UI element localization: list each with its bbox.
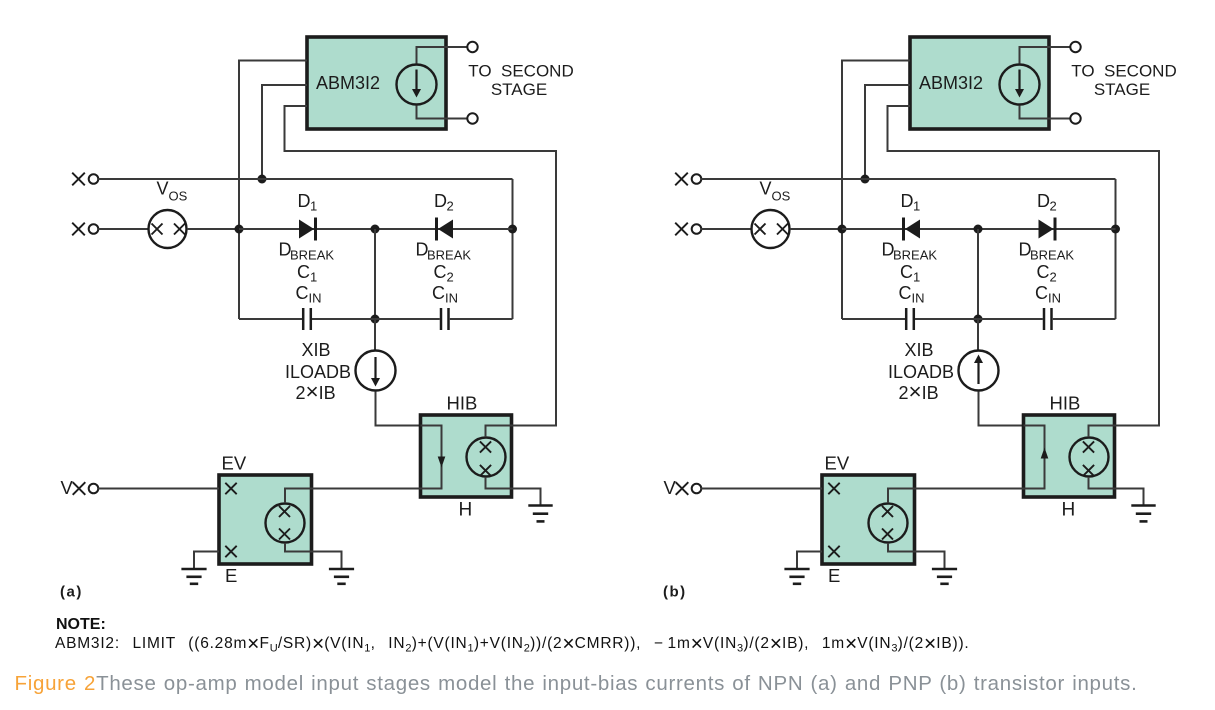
svg-text:IN: IN [309,291,322,306]
wire node B to XIB source (b) [977,319,979,350]
svg-text:1: 1 [913,270,920,285]
wire EV source top to output (b) [888,489,915,504]
svg-text:D: D [434,191,447,211]
diode D2 (b) [1039,220,1054,239]
figure caption [15,672,1138,696]
voltage-controlled source block EV (a) [219,475,312,564]
svg-text:IN: IN [1048,291,1061,306]
ground EV left (b) [784,568,809,571]
EV output source circle (a) [266,504,305,543]
HIB output source circle (a) [467,438,506,477]
wire V input to EV (a) [98,488,219,490]
wire Vos to node A (b) [790,228,842,230]
wire right vertical IN1 to cap row (a) [512,179,514,319]
HIB output source circle (b) [1070,438,1109,477]
svg-text:V: V [664,477,677,498]
svg-text:D: D [1037,191,1050,211]
svg-text:OS: OS [169,189,188,204]
svg-text:XIB: XIB [302,340,331,360]
wire cap row right (a) [450,318,513,320]
svg-text:C: C [899,283,912,303]
wire EV source top to output (a) [285,489,312,504]
HIB sense path (b) [1024,426,1045,489]
svg-text:EV: EV [222,453,247,474]
wire EV left pin to left ground (b) [797,552,822,570]
wire cap row right (b) [1053,318,1116,320]
svg-text:C: C [432,283,445,303]
svg-text:2: 2 [447,270,454,285]
output terminal bottom (b) [1070,113,1080,123]
current-controlled source block HIB (b) [1024,415,1115,497]
svg-text:IN: IN [912,291,925,306]
diode D1 (a) [299,220,314,239]
current source XIB ILOADB (b) [959,351,999,391]
wire XIB source to HIB left pin1 (b) [979,392,1024,426]
wire EV output to HIB (b) [915,488,1024,490]
EV output source circle (b) [869,504,908,543]
wire IN2 to Vos (b) [701,228,751,230]
voltage-controlled source block EV (b) [822,475,915,564]
svg-text:1: 1 [913,199,920,214]
svg-text:2: 2 [447,199,454,214]
current source XIB ILOADB (a) [356,351,396,391]
svg-text:C: C [1037,262,1050,282]
wire HIB source bottom to ground (a) [486,477,541,506]
wire Vos to node A (a) [187,228,239,230]
svg-text:V: V [760,179,772,199]
svg-text:H: H [459,500,473,521]
svg-text:TO SECOND: TO SECOND [468,62,573,81]
junction cap row center (a) [371,315,380,324]
input IN2 cross (a) [72,223,85,236]
wire node B down to cap row (b) [977,229,979,319]
svg-text:ABM3I2: ABM3I2 [919,73,983,93]
op-amp input-stage block ABM3I2 (b) [910,37,1049,129]
offset source VOS (a) [149,210,187,248]
svg-text:BREAK: BREAK [893,248,937,263]
input IN2 terminal (b) [692,224,702,234]
wire cap row middle (a) [312,318,440,320]
capacitor C2/CIN plates (b) [1043,308,1046,330]
junction node A (a) [235,225,244,234]
svg-text:D: D [901,191,914,211]
offset source VOS (b) [752,210,790,248]
ground EV right (a) [329,568,354,571]
ground EV right (b) [932,568,957,571]
svg-text:IN: IN [445,291,458,306]
junction pin2/IN1 (a) [258,175,267,184]
svg-text:ABM3I2: ABM3I2 [316,73,380,93]
svg-text:EV: EV [825,453,850,474]
wire HIB source top to right (a) [486,426,557,438]
wire EV output to HIB (a) [312,488,421,490]
input V terminal (b) [692,484,702,494]
svg-text:C: C [297,262,310,282]
junction right vertical / diode row (b) [1111,225,1120,234]
wire node A to node B (b) [842,228,978,230]
wire ABM3I2 pin2 down to input IN1 wire (a) [262,85,307,179]
input V cross (b) [676,482,689,495]
svg-text:OS: OS [772,189,791,204]
input IN2 terminal (a) [89,224,99,234]
wire cap row left (b) [842,318,905,320]
EV input pin cross top (b) [828,483,839,494]
EV input pin cross bottom (a) [225,546,236,557]
svg-text:H: H [1062,500,1076,521]
junction right vertical / diode row (a) [508,225,517,234]
output terminal top (a) [467,42,477,52]
wire ABM3I2 source bottom to output terminal (b) [1020,106,1071,119]
wire ABM3I2 pin1 to left vertical bus (b) [842,61,910,320]
capacitor C2/CIN plates (a) [440,308,443,330]
svg-text:C: C [434,262,447,282]
svg-text:E: E [225,565,237,586]
input IN2 cross (b) [675,223,688,236]
capacitor C1/CIN plates (a) [302,308,305,330]
current-controlled source block HIB (a) [421,415,512,497]
svg-text:1: 1 [310,199,317,214]
input V cross (a) [73,482,86,495]
wire HIB source bottom to ground (b) [1089,477,1144,506]
op-amp input-stage block ABM3I2 (a) [307,37,446,129]
wire node B to node C (a) [375,228,513,230]
output terminal bottom (a) [467,113,477,123]
wire cap row middle (b) [915,318,1043,320]
input IN1 cross (a) [72,173,85,186]
note heading [56,616,106,634]
wire V input to EV (b) [701,488,822,490]
svg-text:STAGE: STAGE [1094,80,1150,99]
svg-text:STAGE: STAGE [491,80,547,99]
EV input pin cross top (a) [225,483,236,494]
wire IN1 (a) [98,178,512,180]
wire ABM3I2 pin3 routed to HIB right (b) [888,106,1160,426]
svg-text:2×IB: 2×IB [296,379,336,404]
svg-text:(b): (b) [663,584,687,601]
wire ABM3I2 source bottom to output terminal (a) [417,106,468,119]
capacitor C1/CIN plates (b) [905,308,908,330]
EV input pin cross bottom (b) [828,546,839,557]
svg-text:E: E [828,565,840,586]
svg-text:BREAK: BREAK [1030,248,1074,263]
svg-text:D: D [298,191,311,211]
input IN1 terminal (b) [692,174,702,184]
wire EV source bottom to right ground (a) [285,543,342,569]
current source inside ABM3I2 (b) [1000,65,1040,105]
svg-text:C: C [296,283,309,303]
wire IN1 (b) [701,178,1115,180]
output terminal top (b) [1070,42,1080,52]
svg-text:V: V [61,477,74,498]
ABM3I2 limit formula [55,636,969,652]
junction node B (b) [974,225,983,234]
wire cap row left (a) [239,318,302,320]
svg-text:2: 2 [1050,199,1057,214]
wire ABM3I2 source top to output terminal (b) [1020,47,1071,64]
ground HIB (b) [1131,504,1155,507]
wire node B to node C (b) [978,228,1116,230]
ground HIB (a) [528,504,552,507]
HIB sense path (a) [421,426,442,489]
wire EV source bottom to right ground (b) [888,543,945,569]
input IN1 terminal (a) [89,174,99,184]
wire ABM3I2 pin3 routed to HIB right (a) [285,106,557,426]
wire node A to node B (a) [239,228,375,230]
svg-text:V: V [157,179,169,199]
wire right vertical IN1 to cap row (b) [1115,179,1117,319]
wire ABM3I2 source top to output terminal (a) [417,47,468,64]
junction pin2/IN1 (b) [861,175,870,184]
junction node B (a) [371,225,380,234]
junction cap row center (b) [974,315,983,324]
wire EV left pin to left ground (a) [194,552,219,570]
svg-text:C: C [1035,283,1048,303]
wire XIB source to HIB left pin1 (a) [376,392,421,426]
svg-text:2×IB: 2×IB [899,379,939,404]
wire node B down to cap row (a) [374,229,376,319]
wire node B to XIB source (a) [374,319,376,350]
svg-text:C: C [900,262,913,282]
svg-text:BREAK: BREAK [290,248,334,263]
svg-text:XIB: XIB [905,340,934,360]
svg-text:BREAK: BREAK [427,248,471,263]
ground EV left (a) [181,568,206,571]
wire HIB source top to right (b) [1089,426,1160,438]
svg-text:1: 1 [310,270,317,285]
svg-text:HIB: HIB [447,393,478,414]
diode D1 (b) [905,220,920,239]
svg-text:TO SECOND: TO SECOND [1071,62,1176,81]
wire ABM3I2 pin2 down to input IN1 wire (b) [865,85,910,179]
current source inside ABM3I2 (a) [397,65,437,105]
wire ABM3I2 pin1 to left vertical bus (a) [239,61,307,320]
junction node A (b) [838,225,847,234]
diode D2 (a) [438,220,453,239]
svg-text:HIB: HIB [1050,393,1081,414]
wire IN2 to Vos (a) [98,228,148,230]
svg-text:2: 2 [1050,270,1057,285]
svg-text:(a): (a) [60,584,83,601]
input IN1 cross (b) [675,173,688,186]
input V terminal (a) [89,484,99,494]
